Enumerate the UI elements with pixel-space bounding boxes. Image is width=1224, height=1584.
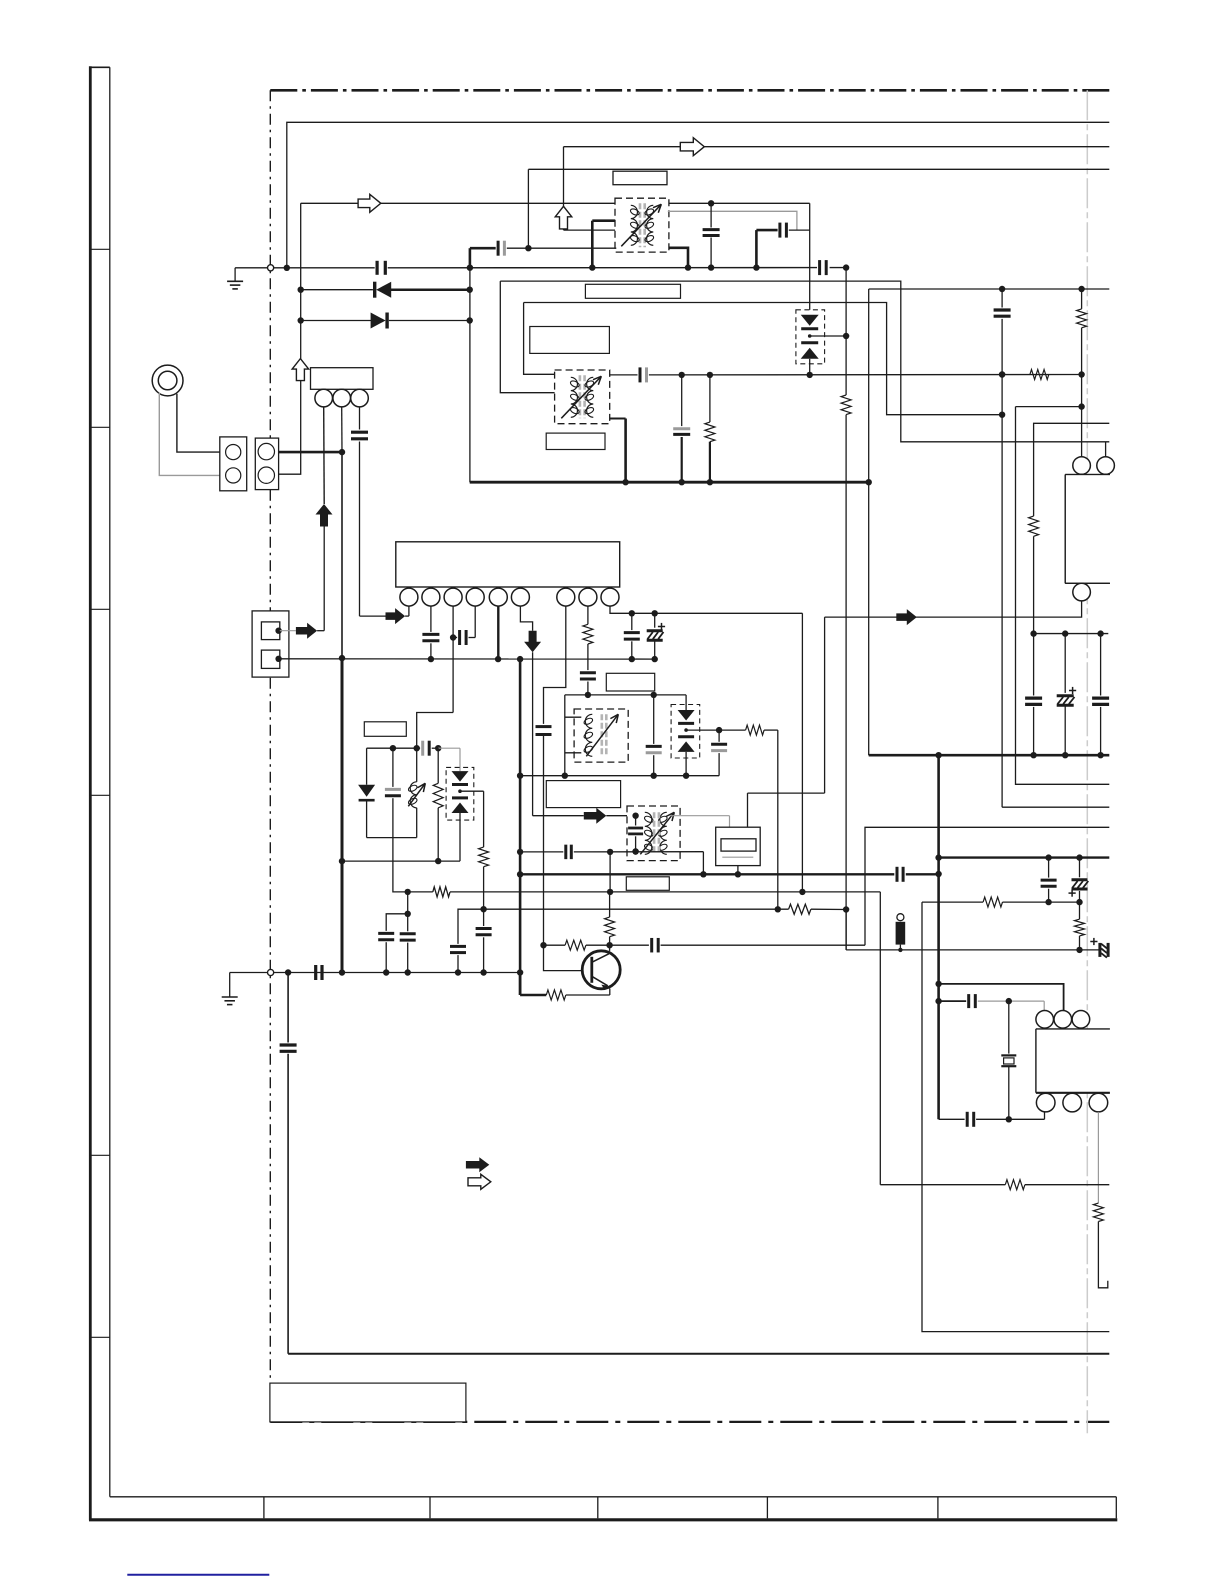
white arrow up at T1 xyxy=(555,206,572,229)
diode D3 xyxy=(366,748,368,785)
U2 bottom pins xyxy=(1036,1093,1055,1112)
thick rail y755 xyxy=(869,754,1110,757)
wire y861 xyxy=(342,860,460,862)
U1 pin3 + C18 to pin4 xyxy=(452,606,454,712)
thick stub y984 xyxy=(939,984,1064,1029)
T4 right out gray xyxy=(670,815,730,817)
wire y950 to electrolytic C13 xyxy=(846,949,1098,951)
wire y169 xyxy=(528,168,1109,170)
chain boundary top xyxy=(270,89,1109,92)
wire y694 xyxy=(565,694,686,696)
variable inductor L1 xyxy=(416,748,418,782)
thermistor/fuse TH1 xyxy=(897,914,904,921)
IC U3 top right xyxy=(1065,475,1110,584)
filled arrow on y617 xyxy=(896,609,917,625)
leg big box to T2 pin2 xyxy=(500,281,555,393)
capacitor C11 xyxy=(1048,858,1050,878)
page border bottom xyxy=(89,1518,1117,1521)
wire y203 with open arrow xyxy=(301,202,810,204)
U1 pin2 capacitor C17 xyxy=(430,606,432,632)
crystal X1 xyxy=(1008,1001,1010,1054)
Z3 tap wire xyxy=(810,335,846,337)
wire y146 with open arrow xyxy=(564,146,1110,148)
ground rail y972 xyxy=(230,972,520,974)
wire y775 xyxy=(520,775,719,777)
resistor wire y891 + R14 xyxy=(404,889,410,895)
U1 pin8 resistor R10 + C20 xyxy=(587,606,589,624)
page border left bar xyxy=(89,66,92,1520)
vertical x802 down xyxy=(801,613,803,892)
node open circle on chain line xyxy=(267,265,273,271)
left bar tick marks xyxy=(90,248,110,250)
U1 pin7 jog xyxy=(544,606,566,724)
capacitor C12 electrolytic xyxy=(1079,858,1081,878)
resistor R12 x437 xyxy=(437,748,439,783)
wire y1119 + capacitor C15 xyxy=(939,1118,965,1120)
resistor R4 x1081 vertical xyxy=(1077,309,1087,328)
wire T1 right top xyxy=(668,211,797,230)
T2 right bottom thick leg xyxy=(610,418,626,420)
IC U0 small box top-left xyxy=(311,368,374,390)
vertical x824 down xyxy=(824,617,826,793)
capacitor C27 x392 xyxy=(392,748,394,787)
wire plug to CN1 pin2 (gray) xyxy=(159,393,220,476)
base wire xyxy=(544,945,592,970)
wire plug to CN1 pin1 xyxy=(177,394,220,452)
wire y423 + resistor R5 column xyxy=(1034,423,1110,516)
diode D2 (points right) xyxy=(301,320,372,322)
chain boundary bottom xyxy=(270,1421,1109,1423)
resistor R2 on y374 xyxy=(1030,370,1049,380)
wire y837 xyxy=(367,837,417,839)
CN3 pin1 wire + filled arrow right xyxy=(280,630,296,632)
wire to U1 pin1 with arrow xyxy=(360,615,386,617)
U2 top pins xyxy=(1036,1011,1054,1029)
wire y146 drop to arrow xyxy=(563,147,565,207)
long vertical x868 xyxy=(868,289,870,755)
transistor Q1 xyxy=(582,951,620,989)
capacitor C2 inline in bus xyxy=(818,260,821,275)
wire y851 + capacitor C25 xyxy=(520,851,563,853)
capacitor C0 inline in bus xyxy=(375,261,378,275)
rail y658 (signal ground) xyxy=(279,658,655,660)
open circle node bottom xyxy=(267,969,273,975)
inner label box 2 xyxy=(530,327,610,354)
T2 label box below xyxy=(546,433,605,449)
label box x364 xyxy=(364,722,406,737)
chain boundary left xyxy=(269,90,271,1422)
U0 pin2 vertical xyxy=(341,407,343,452)
zener pair Z1 xyxy=(459,748,461,771)
gray chain line vertical xyxy=(1086,90,1088,1433)
bold rail y482 xyxy=(470,481,869,484)
U1 pins xyxy=(400,588,418,606)
wire y913 caps C28 C29 xyxy=(407,892,409,914)
left inner box leg + capacitor C33 xyxy=(287,973,289,1043)
wire y807 from x1001 xyxy=(1002,806,1109,808)
resonator link wire y793 xyxy=(748,792,825,794)
white arrow up on live wire xyxy=(292,359,309,381)
U1 pin9 jog to y613 xyxy=(610,606,802,613)
label box x546 xyxy=(546,781,620,808)
title block row xyxy=(110,1496,1117,1498)
thick vertical x520 long xyxy=(519,659,522,995)
vertical x845 with resistor R1 xyxy=(845,268,847,395)
capacitor C1 at T1 left xyxy=(469,248,472,268)
capacitor C23 x653 xyxy=(653,695,655,744)
vertical x921 long xyxy=(922,902,1109,1332)
capacitor C19 x543 xyxy=(536,725,552,728)
corner x864 up to y827 xyxy=(865,827,1109,945)
wire CN2 upper to node (thick) xyxy=(279,451,342,454)
emitter to thick corner xyxy=(609,989,611,996)
thick rail y857 xyxy=(939,856,1110,858)
capacitor C6 column x681 xyxy=(681,375,683,426)
connector CN2 xyxy=(255,438,278,490)
corner x845 to y950 xyxy=(845,910,847,950)
open arrow right on y203 xyxy=(358,194,381,212)
blue link underline xyxy=(127,1574,269,1576)
wire y406 xyxy=(1016,406,1082,408)
wire T1 left lower xyxy=(564,229,617,231)
thick vertical x938 xyxy=(937,755,940,1119)
U1 pin3 jog to diode cluster xyxy=(417,713,453,749)
wire CN2 lower up to live wire xyxy=(279,203,301,474)
T2 out wire y374 + capacitor C5 xyxy=(610,374,638,376)
Z2 tap + resistor R11 xyxy=(686,729,719,731)
resistor R17 above collector xyxy=(609,892,611,917)
U1 pin5 thick to rail xyxy=(497,606,499,659)
capacitor C10 xyxy=(1100,634,1102,696)
leg inner box to T2 pin1 xyxy=(524,303,556,375)
wire y1001 + capacitor C14 xyxy=(939,1000,967,1002)
transformer T2 xyxy=(555,370,610,424)
IC U2 box xyxy=(1036,1029,1110,1093)
ceramic resonator XT2 xyxy=(716,827,761,865)
resistor R3 column x709 xyxy=(709,375,711,422)
wire y815 + filled arrow xyxy=(533,815,584,817)
vertical to U1 pin1 via black up arrow xyxy=(323,527,325,631)
legend open arrow xyxy=(468,1174,491,1189)
capacitor C22 electrolytic x654 xyxy=(654,613,656,627)
label box top (T1) xyxy=(613,171,667,185)
wire y1184 + resistor R9 xyxy=(879,892,881,1185)
drop x528 to cap node xyxy=(527,169,529,248)
connector CN3 xyxy=(252,611,289,677)
resistor R7 x1079 vertical xyxy=(1075,919,1085,936)
vertical x564 with T3 taps xyxy=(564,695,566,776)
legend filled arrow xyxy=(466,1157,489,1172)
thick L + capacitor C4 xyxy=(755,230,758,267)
inner block outline xyxy=(524,303,1003,415)
diode D1 (points left) xyxy=(301,289,373,291)
main thick vertical x341 xyxy=(341,452,343,658)
Z1 tap + resistor R13 xyxy=(460,790,484,792)
wire y945 + R16 + C34 xyxy=(544,944,566,946)
ground symbol top left xyxy=(235,267,270,269)
left leg big box to bold rail xyxy=(469,268,471,483)
transformer T3 (coil) xyxy=(574,709,628,762)
IC U1 box xyxy=(396,542,620,587)
capacitor C21 x631 xyxy=(631,613,633,630)
power block label box xyxy=(585,284,680,298)
capacitor C3 column x711 xyxy=(708,200,714,206)
wire y289 right to x1081 xyxy=(1002,288,1109,290)
label box x606 xyxy=(606,673,654,691)
ground symbol bottom xyxy=(229,973,231,998)
U1 pin6 with down arrow xyxy=(520,606,532,631)
boundary label box xyxy=(270,1383,466,1422)
transformer T1 xyxy=(615,198,669,252)
wire y902 + resistor R6 xyxy=(922,901,983,903)
long vertical from y203 corner xyxy=(809,203,811,309)
connector CN1 xyxy=(220,437,247,491)
wire T1 left upper (thick) xyxy=(592,219,616,222)
wire T1 right bottom (thick) xyxy=(669,248,688,268)
power block outline top xyxy=(500,281,1109,442)
wire top bus y122 xyxy=(287,122,1110,267)
vertical x1015 to y784 xyxy=(1016,407,1110,785)
vertical x609 label box xyxy=(609,852,611,892)
rail y633 xyxy=(1034,633,1109,635)
capacitor C7 x1001 xyxy=(1001,289,1003,308)
inner box bottom wire y1353 xyxy=(288,1353,1109,1355)
cluster wire y748 + capacitor C26 xyxy=(367,747,421,749)
zener pair Z3 xyxy=(796,310,825,364)
capacitor C32 inline xyxy=(314,965,317,980)
capacitor C9 electrolytic xyxy=(1064,634,1066,693)
wire y909 + caps C30 C31 + R15 xyxy=(458,909,484,944)
U3 bottom pin wire to y617 xyxy=(825,601,1082,617)
bus wire y267 xyxy=(273,267,375,269)
capacitor C8 xyxy=(1033,634,1035,696)
thick rail y874 xyxy=(520,873,894,875)
zener pair Z2 xyxy=(685,695,687,710)
transformer T4 xyxy=(627,806,680,861)
U2 pin3 column + resistor R8 xyxy=(1097,1112,1099,1203)
U0 pin3 capacitor C16 xyxy=(359,407,361,430)
capacitor C24 x718 xyxy=(718,730,720,742)
open arrow right on y146 xyxy=(680,138,704,156)
column x392 to resistor wire xyxy=(393,838,408,892)
wire y289 right segment xyxy=(869,288,1002,290)
AC plug P1 xyxy=(152,365,183,396)
vertical x777 long xyxy=(777,730,779,909)
